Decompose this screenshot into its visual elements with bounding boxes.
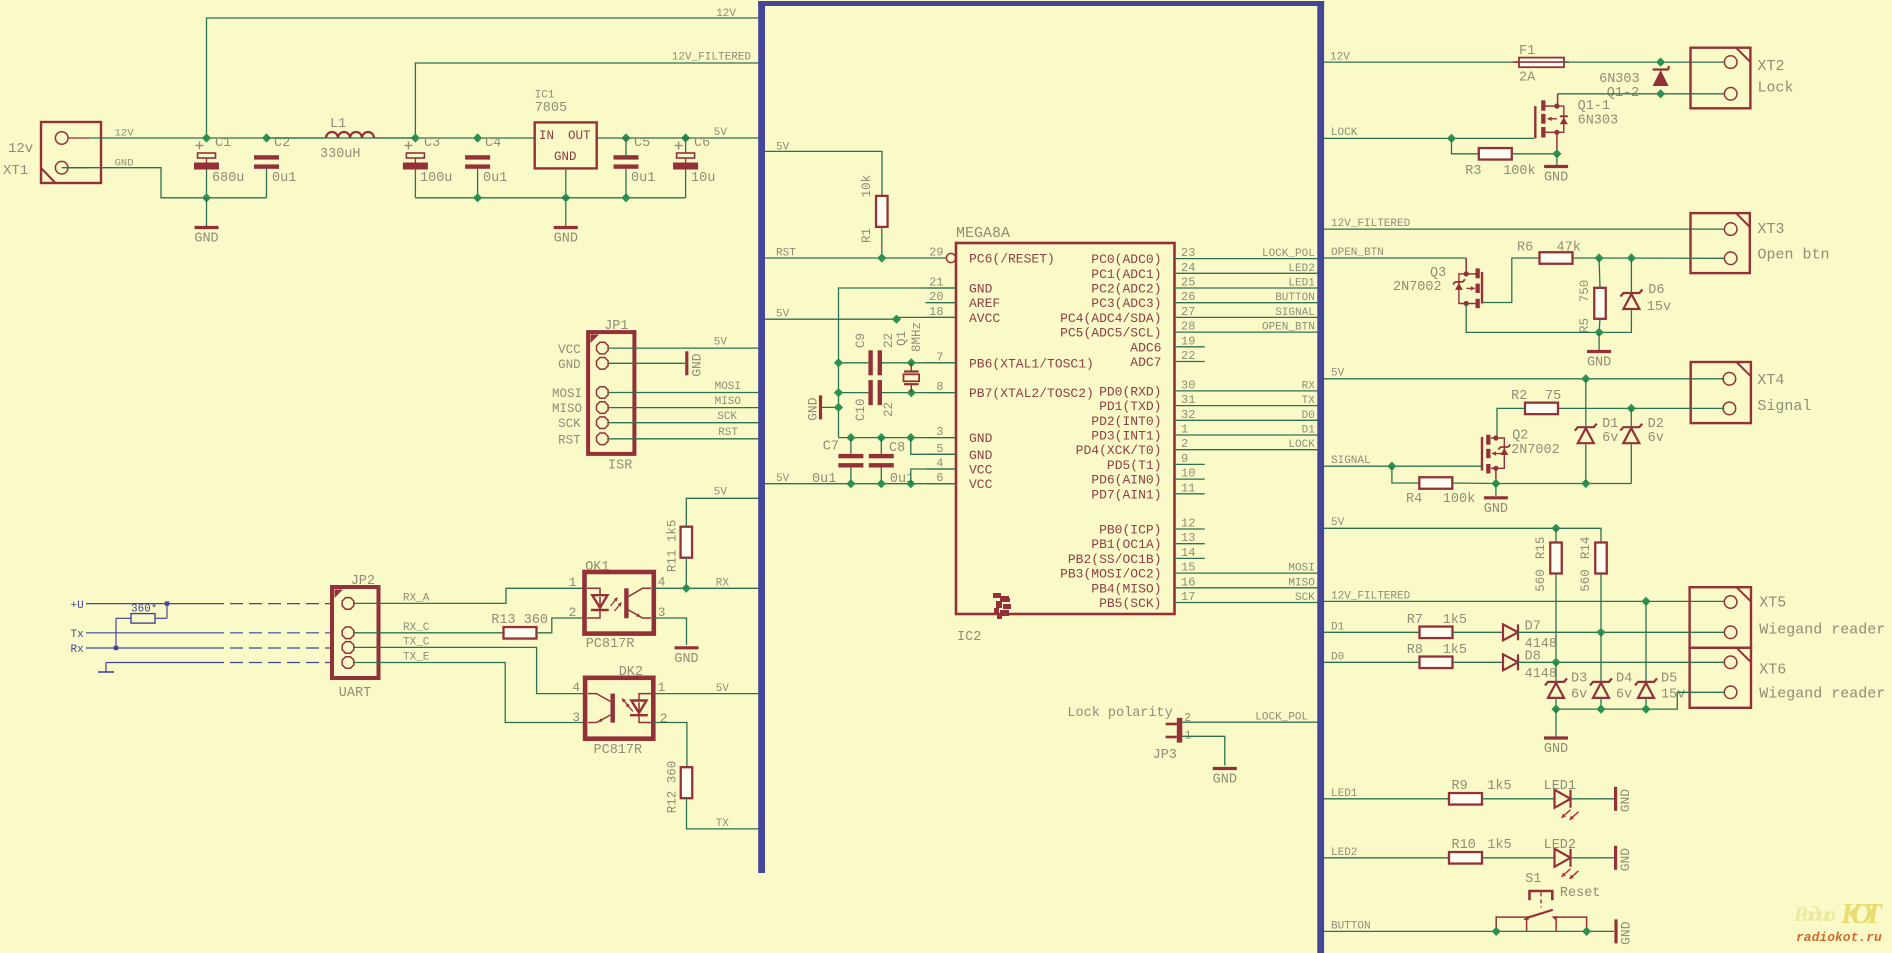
wire JP1 SCK bbox=[609, 422, 760, 424]
wire 12V up from C1 junction bbox=[207, 18, 760, 138]
svg-text:D3: D3 bbox=[1571, 672, 1587, 687]
svg-text:D4: D4 bbox=[1616, 672, 1632, 687]
pin 1 PD3(INT1) bbox=[1091, 423, 1318, 444]
capacitor C9 22p bbox=[854, 333, 896, 375]
svg-text:4: 4 bbox=[658, 575, 666, 590]
svg-text:1k5: 1k5 bbox=[1443, 643, 1467, 658]
junction D2 signal bbox=[1627, 404, 1636, 413]
pin 2 PD4(XCK/T0) bbox=[1076, 437, 1319, 458]
ground GND JP3 bbox=[1213, 769, 1237, 788]
svg-text:PD1(TXD): PD1(TXD) bbox=[1099, 399, 1161, 414]
wire D3 leads bbox=[1555, 662, 1557, 682]
resistor R14 560 bbox=[1579, 537, 1607, 592]
capacitor C1 680u electrolytic bbox=[194, 136, 244, 186]
svg-text:6v: 6v bbox=[1648, 431, 1664, 446]
svg-text:R13 360: R13 360 bbox=[491, 613, 548, 628]
wire R8 to D8 bbox=[1453, 661, 1504, 663]
frame top bar bbox=[758, 1, 1324, 6]
ground GND wiegand bbox=[1544, 738, 1568, 757]
svg-text:ADC6: ADC6 bbox=[1130, 340, 1161, 355]
pin 5 GND bbox=[926, 442, 993, 463]
svg-text:JP1: JP1 bbox=[604, 319, 628, 334]
svg-text:R4: R4 bbox=[1406, 492, 1422, 507]
wire LED1 row bbox=[1324, 798, 1449, 800]
svg-text:18: 18 bbox=[929, 305, 943, 319]
junction Q1-2 top bbox=[1656, 58, 1665, 67]
wire JP3 pin1 to GND bbox=[1182, 736, 1225, 765]
svg-text:SCK: SCK bbox=[558, 417, 581, 431]
svg-text:2N7002: 2N7002 bbox=[1393, 280, 1442, 295]
svg-text:PC817R: PC817R bbox=[586, 637, 635, 652]
svg-text:C1: C1 bbox=[215, 136, 231, 151]
wire D1 bottom bbox=[1585, 443, 1587, 483]
svg-text:D5: D5 bbox=[1661, 672, 1677, 687]
wire 5V to AVCC/AREF bbox=[765, 317, 956, 319]
wire D6 bottom bbox=[1599, 309, 1631, 332]
svg-text:PC817R: PC817R bbox=[594, 743, 643, 758]
capacitor C6 10u electrolytic bbox=[673, 136, 715, 186]
svg-text:GND: GND bbox=[1544, 742, 1568, 757]
svg-text:PC5(ADC5/SCL): PC5(ADC5/SCL) bbox=[1060, 326, 1161, 341]
svg-text:PC3(ADC3): PC3(ADC3) bbox=[1091, 296, 1161, 311]
wire DK2 pin1 to 5V bbox=[653, 693, 759, 695]
wire R4 to Q2 source rail bbox=[1452, 482, 1496, 485]
svg-text:PD2(INT0): PD2(INT0) bbox=[1091, 414, 1161, 429]
wire 5V to R15 R14 bbox=[1324, 528, 1601, 542]
zener diode D5 15v bbox=[1635, 672, 1685, 703]
svg-text:5: 5 bbox=[936, 442, 943, 456]
wire D2 bottom bbox=[1630, 443, 1632, 483]
svg-text:SIGNAL: SIGNAL bbox=[1331, 455, 1371, 467]
svg-text:GND: GND bbox=[1587, 356, 1611, 371]
wire R3 to source bbox=[1512, 153, 1557, 155]
svg-text:LED1: LED1 bbox=[1288, 278, 1315, 290]
svg-text:7: 7 bbox=[936, 350, 943, 364]
pin 8 PB7(XTAL2/TOSC2) bbox=[926, 380, 1094, 401]
pin 21 GND bbox=[926, 276, 993, 297]
svg-text:R5: R5 bbox=[1578, 318, 1592, 333]
svg-text:AREF: AREF bbox=[969, 296, 1000, 311]
zener diode D3 6v bbox=[1545, 672, 1587, 703]
svg-text:PB0(ICP): PB0(ICP) bbox=[1099, 523, 1161, 538]
wire R11 bottom bbox=[685, 558, 687, 589]
junction C10 right bbox=[907, 388, 916, 397]
svg-text:LED1: LED1 bbox=[1544, 779, 1576, 794]
svg-text:GND: GND bbox=[969, 282, 993, 297]
svg-text:LOCK_POL: LOCK_POL bbox=[1262, 248, 1315, 260]
junction C9 right bbox=[907, 358, 916, 367]
regulator IC1 7805 bbox=[535, 90, 597, 169]
pin 11 PD7(AIN1) bbox=[1091, 481, 1204, 502]
svg-text:PC4(ADC4/SDA): PC4(ADC4/SDA) bbox=[1060, 311, 1161, 326]
pin 27 PC4(ADC4/SDA) bbox=[1060, 305, 1318, 326]
svg-text:GND: GND bbox=[1619, 921, 1634, 945]
svg-text:26: 26 bbox=[1181, 290, 1195, 304]
svg-text:12v: 12v bbox=[8, 141, 33, 157]
svg-text:0u1: 0u1 bbox=[483, 171, 507, 186]
svg-text:C10: C10 bbox=[854, 398, 868, 421]
crystal Q1 8MHz bbox=[895, 322, 924, 393]
svg-text:D2: D2 bbox=[1648, 417, 1664, 432]
svg-text:7805: 7805 bbox=[535, 101, 567, 116]
resistor R1 10k bbox=[860, 175, 888, 243]
wire LOCK to Q1-1 gate bbox=[1324, 137, 1534, 139]
svg-text:RST: RST bbox=[776, 248, 796, 260]
wire C1 junction to GND symbol bbox=[206, 198, 208, 226]
connector XT2 Lock bbox=[1691, 48, 1794, 109]
svg-text:Rx: Rx bbox=[71, 644, 85, 656]
svg-text:JP3: JP3 bbox=[1153, 748, 1177, 763]
svg-text:Lock: Lock bbox=[1758, 80, 1794, 97]
ground GND LED1 rotated bbox=[1616, 787, 1634, 813]
junction D5 top bbox=[1641, 597, 1650, 606]
svg-text:Signal: Signal bbox=[1757, 398, 1811, 415]
svg-text:+U: +U bbox=[71, 600, 84, 612]
svg-text:15v: 15v bbox=[1647, 300, 1671, 315]
svg-text:RX_C: RX_C bbox=[403, 622, 430, 634]
svg-text:LOCK: LOCK bbox=[1288, 439, 1315, 451]
aux net TX_E with earth stub (navy) bbox=[98, 663, 332, 673]
wire SIGNAL to Q2 gate bbox=[1324, 465, 1481, 467]
wire R4 branch bbox=[1392, 466, 1420, 483]
svg-text:LED2: LED2 bbox=[1331, 847, 1357, 859]
diode Q1-2 6N303 body diode bbox=[1599, 66, 1669, 101]
svg-text:RST: RST bbox=[558, 433, 581, 447]
junction C3 top bbox=[411, 133, 420, 142]
inductor L1 330uH bbox=[320, 117, 374, 162]
aux net +U (navy) bbox=[71, 600, 333, 612]
microcontroller IC2 MEGA8A bbox=[956, 225, 1175, 645]
junction C1 top bbox=[202, 133, 211, 142]
pin 17 PB5(SCK) bbox=[1099, 590, 1318, 611]
svg-text:2N7002: 2N7002 bbox=[1511, 443, 1560, 458]
svg-text:RX: RX bbox=[716, 578, 730, 590]
svg-text:TX: TX bbox=[1302, 395, 1316, 407]
svg-text:IC1: IC1 bbox=[535, 90, 555, 102]
wire R5 bottom bbox=[1598, 319, 1601, 333]
svg-text:100k: 100k bbox=[1443, 492, 1475, 507]
transistor Q3 2N7002 n-mosfet mirrored bbox=[1393, 258, 1482, 308]
wire LED1 to GND bbox=[1571, 798, 1615, 800]
svg-text:1: 1 bbox=[1181, 423, 1188, 437]
pin 26 PC3(ADC3) bbox=[1091, 290, 1318, 311]
svg-text:GND: GND bbox=[674, 652, 698, 667]
wire JP1 GND bbox=[609, 362, 685, 364]
svg-text:10u: 10u bbox=[691, 171, 715, 186]
junction R14 D7 bbox=[1596, 628, 1605, 637]
svg-text:6: 6 bbox=[936, 471, 943, 485]
junction RX R11 bbox=[682, 584, 691, 593]
svg-text:GND: GND bbox=[1618, 789, 1633, 813]
svg-text:Q1-1: Q1-1 bbox=[1578, 99, 1610, 114]
svg-text:Wiegand reader: Wiegand reader bbox=[1759, 622, 1885, 639]
junction C7 bottom bbox=[846, 479, 855, 488]
svg-text:560: 560 bbox=[1579, 569, 1593, 592]
wire 12V_FILTERED to XT5 bbox=[1324, 600, 1724, 602]
wire 12V_FILTERED from C3 junction to frame bbox=[415, 63, 759, 138]
svg-text:SIGNAL: SIGNAL bbox=[1275, 307, 1315, 319]
wire JP1 MOSI bbox=[609, 392, 760, 394]
wire C5 bottom bbox=[625, 169, 627, 198]
pin 24 PC1(ADC1) bbox=[1091, 261, 1318, 282]
svg-text:C8: C8 bbox=[889, 441, 905, 456]
svg-text:PD6(AIN0): PD6(AIN0) bbox=[1091, 473, 1161, 488]
wire D1 line to R7 bbox=[1324, 631, 1420, 633]
svg-text:MISO: MISO bbox=[1288, 577, 1315, 589]
zener diode D1 6v bbox=[1575, 417, 1619, 446]
pin 23 PC0(ADC0) bbox=[1091, 246, 1318, 267]
svg-text:XT5: XT5 bbox=[1759, 595, 1786, 612]
wire 5V to R1 bbox=[765, 151, 882, 196]
wire C4 bottom bbox=[477, 169, 479, 198]
svg-text:5V: 5V bbox=[716, 683, 730, 695]
wire D2 top bbox=[1630, 408, 1632, 427]
zener diode D4 6v bbox=[1590, 672, 1632, 703]
svg-text:TX_C: TX_C bbox=[403, 637, 430, 649]
svg-text:LOCK: LOCK bbox=[1331, 127, 1358, 139]
switch S1 Reset bbox=[1496, 872, 1600, 931]
junction C10 left bbox=[834, 388, 843, 397]
wire LED2 row bbox=[1324, 857, 1449, 859]
svg-text:C7: C7 bbox=[823, 440, 839, 455]
svg-text:Q2: Q2 bbox=[1512, 429, 1528, 444]
svg-text:13: 13 bbox=[1181, 531, 1195, 545]
junction C5 GND bbox=[621, 193, 630, 202]
connector XT1 bbox=[3, 122, 101, 183]
svg-text:22: 22 bbox=[882, 402, 896, 417]
wire R6 to XT3 pin2 bbox=[1573, 257, 1725, 259]
svg-text:XT3: XT3 bbox=[1758, 221, 1785, 238]
junction C9 left bbox=[834, 358, 843, 367]
wire TX_C from JP2 pin3 bbox=[354, 647, 585, 693]
pin 14 PB2(SS/OC1B) bbox=[1068, 546, 1205, 567]
junction C4 GND bbox=[473, 193, 482, 202]
resistor R9 1k5 bbox=[1449, 779, 1512, 805]
svg-text:VCC: VCC bbox=[969, 463, 993, 478]
svg-text:MEGA8A: MEGA8A bbox=[956, 225, 1010, 242]
svg-text:SCK: SCK bbox=[1295, 592, 1315, 604]
wire C10 right to pin8 bbox=[882, 392, 956, 394]
svg-text:31: 31 bbox=[1181, 393, 1195, 407]
svg-text:BUTTON: BUTTON bbox=[1331, 921, 1371, 933]
pin 13 PB1(OC1A) bbox=[1091, 531, 1204, 552]
capacitor C4 0u1 bbox=[465, 136, 507, 186]
junction C2 top bbox=[262, 133, 271, 142]
svg-text:100k: 100k bbox=[1503, 164, 1535, 179]
wire D4 leads bbox=[1600, 632, 1602, 682]
ground GND left bbox=[194, 228, 218, 247]
svg-text:3: 3 bbox=[936, 425, 943, 439]
svg-text:RX_A: RX_A bbox=[403, 593, 430, 605]
svg-text:Радио: Радио bbox=[1793, 902, 1836, 926]
svg-text:GND: GND bbox=[1618, 848, 1633, 872]
junction pin4 branch bbox=[906, 479, 915, 488]
junction C8 bottom bbox=[877, 479, 886, 488]
svg-text:1k5: 1k5 bbox=[1487, 779, 1511, 794]
wire GND rail C7 C8 to pin3 bbox=[839, 437, 957, 439]
svg-text:C5: C5 bbox=[634, 136, 650, 151]
svg-text:30: 30 bbox=[1181, 378, 1195, 392]
svg-text:C4: C4 bbox=[485, 136, 501, 151]
junction IC1 GND on rail bbox=[561, 193, 570, 202]
pin 32 PD2(INT0) bbox=[1091, 408, 1318, 429]
junction D4 gnd bbox=[1596, 705, 1605, 714]
svg-text:PD7(AIN1): PD7(AIN1) bbox=[1091, 487, 1161, 502]
wire 5V from IC1 OUT bbox=[597, 137, 760, 139]
svg-text:PC0(ADC0): PC0(ADC0) bbox=[1091, 252, 1161, 267]
svg-text:1: 1 bbox=[658, 680, 666, 695]
resistor R2 75 bbox=[1511, 389, 1561, 414]
junction GND C1 bbox=[202, 193, 211, 202]
svg-text:L1: L1 bbox=[330, 117, 346, 132]
svg-text:R9: R9 bbox=[1452, 779, 1468, 794]
frame left bar bbox=[758, 1, 765, 873]
header JP2 UART bbox=[332, 574, 379, 701]
wire source to GND bbox=[1556, 154, 1558, 165]
svg-text:6v: 6v bbox=[1616, 688, 1632, 703]
svg-text:14: 14 bbox=[1181, 546, 1195, 560]
svg-text:GND: GND bbox=[1213, 773, 1237, 788]
junction LOCK R3 bbox=[1447, 134, 1456, 143]
wire pin5 branch bbox=[911, 438, 956, 455]
svg-text:GND: GND bbox=[554, 150, 577, 164]
svg-text:GND: GND bbox=[1484, 502, 1508, 517]
junction S1 left bbox=[1492, 927, 1501, 936]
pin 20 AREF bbox=[926, 290, 1001, 311]
wire R12 bottom to TX bbox=[687, 798, 760, 829]
wire RST bbox=[765, 257, 946, 259]
resistor R3 100k bbox=[1465, 148, 1535, 179]
svg-text:R8: R8 bbox=[1407, 643, 1423, 658]
junction C4 top bbox=[473, 133, 482, 142]
pin 28 PC5(ADC5/SCL) bbox=[1060, 320, 1318, 341]
svg-text:F1: F1 bbox=[1519, 44, 1535, 59]
svg-text:R11 1k5: R11 1k5 bbox=[666, 520, 680, 573]
wire LED2 to GND bbox=[1571, 857, 1615, 859]
svg-text:Q3: Q3 bbox=[1430, 266, 1446, 281]
wire 12V from XT1 to C1 bbox=[90, 137, 207, 139]
grunge blob inside IC2 bbox=[993, 593, 1011, 619]
svg-text:5V: 5V bbox=[1331, 517, 1345, 529]
wire C1 bottom bbox=[206, 170, 208, 198]
svg-text:PB3(MOSI/OC2): PB3(MOSI/OC2) bbox=[1060, 567, 1161, 582]
resistor R6 47k bbox=[1517, 241, 1581, 264]
svg-text:4148: 4148 bbox=[1525, 667, 1557, 682]
LED LED2 bbox=[1544, 838, 1579, 879]
wire GND Q2 bbox=[1495, 484, 1497, 497]
junction RST R1 bbox=[877, 253, 886, 262]
connector XT3 Open btn bbox=[1691, 213, 1830, 273]
optocoupler OK1 PC817R bbox=[585, 560, 654, 652]
wire Q3 source bbox=[1466, 304, 1599, 333]
svg-text:C6: C6 bbox=[694, 136, 710, 151]
svg-text:5V: 5V bbox=[1331, 368, 1345, 380]
wire DK2 pin2 to R12 bbox=[653, 723, 687, 767]
svg-text:10: 10 bbox=[1181, 467, 1195, 481]
svg-text:PD3(INT1): PD3(INT1) bbox=[1091, 429, 1161, 444]
svg-text:Q1: Q1 bbox=[895, 331, 909, 346]
resistor R10 1k5 bbox=[1449, 838, 1512, 864]
header JP1 ISR bbox=[588, 319, 634, 474]
svg-text:R12 360: R12 360 bbox=[666, 761, 680, 814]
svg-text:UART: UART bbox=[339, 686, 371, 701]
ground GND S1 rotated bbox=[1616, 919, 1634, 945]
svg-text:PC2(ADC2): PC2(ADC2) bbox=[1091, 282, 1161, 297]
pin 29 inversion bubble bbox=[946, 253, 955, 262]
svg-text:R15: R15 bbox=[1534, 537, 1548, 560]
wire signal row XT4 bbox=[1558, 407, 1724, 409]
wire TX_E from JP2 pin4 bbox=[354, 663, 585, 723]
wire LOCK_POL from JP3 pin2 bbox=[1182, 721, 1318, 723]
svg-text:PB6(XTAL1/TOSC1): PB6(XTAL1/TOSC1) bbox=[969, 356, 1094, 371]
aux net Rx (navy) bbox=[71, 644, 333, 656]
svg-text:5V: 5V bbox=[776, 473, 790, 485]
junction S1 right bbox=[1582, 927, 1591, 936]
wire 5V to XT4 bbox=[1324, 378, 1724, 380]
svg-text:R3: R3 bbox=[1465, 164, 1481, 179]
wire Q3 gate to R6 bbox=[1483, 258, 1540, 303]
svg-text:47k: 47k bbox=[1557, 241, 1581, 256]
svg-text:VCC: VCC bbox=[969, 477, 993, 492]
svg-text:MISO: MISO bbox=[552, 402, 582, 416]
resistor R12 360 bbox=[666, 761, 693, 814]
svg-text:JP2: JP2 bbox=[351, 574, 375, 589]
junction C8 top bbox=[877, 433, 886, 442]
ground GND crystal rotated bbox=[806, 395, 839, 421]
zener diode D2 6v bbox=[1620, 417, 1664, 446]
svg-text:OPEN_BTN: OPEN_BTN bbox=[1331, 247, 1384, 259]
pin 7 PB6(XTAL1/TOSC1) bbox=[926, 350, 1094, 371]
svg-text:PB5(SCK): PB5(SCK) bbox=[1099, 596, 1161, 611]
svg-text:Tx: Tx bbox=[71, 629, 85, 641]
svg-text:GND: GND bbox=[558, 358, 581, 372]
junction Q1-2 anode bbox=[1656, 89, 1665, 98]
svg-text:R7: R7 bbox=[1407, 613, 1423, 628]
svg-text:0u1: 0u1 bbox=[272, 171, 296, 186]
svg-text:MOSI: MOSI bbox=[552, 387, 582, 401]
svg-text:PD0(RXD): PD0(RXD) bbox=[1099, 384, 1161, 399]
svg-text:1k5: 1k5 bbox=[1487, 838, 1511, 853]
svg-text:560: 560 bbox=[1534, 569, 1548, 592]
svg-text:TX: TX bbox=[716, 818, 730, 830]
svg-text:2: 2 bbox=[1181, 437, 1188, 451]
capacitor C5 0u1 bbox=[614, 136, 656, 186]
wire JP1 MISO bbox=[609, 407, 760, 409]
junction C7 top bbox=[846, 433, 855, 442]
svg-text:750: 750 bbox=[1578, 280, 1592, 303]
jumper JP3 Lock polarity bbox=[1067, 706, 1191, 763]
wire D6 top bbox=[1630, 258, 1632, 293]
svg-text:PD5(T1): PD5(T1) bbox=[1107, 458, 1162, 473]
svg-text:MOSI: MOSI bbox=[715, 381, 741, 393]
wire 5V rail to VCC pin6 bbox=[765, 483, 956, 485]
svg-text:8MHz: 8MHz bbox=[910, 322, 924, 352]
zener diode D6 15v bbox=[1620, 283, 1671, 315]
svg-text:PD4(XCK/T0): PD4(XCK/T0) bbox=[1076, 443, 1162, 458]
svg-text:28: 28 bbox=[1181, 320, 1195, 334]
wire GND pin21 to crystal rail bbox=[839, 288, 957, 438]
resistor R7 1k5 bbox=[1407, 613, 1467, 638]
wire RX_A from JP2 pin1 bbox=[354, 602, 378, 604]
wire C6 bottom bbox=[685, 170, 687, 198]
diode D8 4148 bbox=[1503, 650, 1557, 683]
svg-text:6v: 6v bbox=[1602, 431, 1618, 446]
svg-text:PB7(XTAL2/TOSC2): PB7(XTAL2/TOSC2) bbox=[969, 386, 1094, 401]
svg-text:9: 9 bbox=[1181, 452, 1188, 466]
junction AVCC bbox=[892, 315, 901, 324]
svg-text:6N303: 6N303 bbox=[1599, 72, 1640, 87]
svg-text:12V_FILTERED: 12V_FILTERED bbox=[672, 52, 752, 64]
